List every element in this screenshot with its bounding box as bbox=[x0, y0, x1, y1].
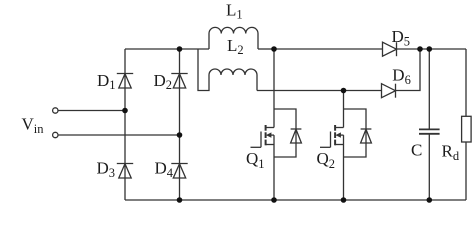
junction D4 bottom rail bbox=[177, 197, 183, 203]
diode D5 bbox=[383, 42, 397, 56]
diode D2 bbox=[171, 74, 187, 89]
junction upper input / D1 column bbox=[122, 108, 128, 114]
transistor Q1 bbox=[251, 125, 275, 147]
wire left bridge leg (D1/D3 column) bbox=[124, 49, 126, 200]
diode D3 bbox=[117, 164, 133, 179]
junction Q1 source rail bbox=[271, 197, 277, 203]
diode D6 bbox=[382, 84, 396, 98]
wire lower input bbox=[58, 134, 180, 136]
wire top rail input bbox=[125, 48, 209, 50]
svg-text:L1: L1 bbox=[226, 0, 243, 21]
transistor Q2 bbox=[320, 125, 344, 147]
wire Q1 source bbox=[273, 135, 275, 200]
svg-text:D2: D2 bbox=[154, 71, 173, 92]
svg-text:D1: D1 bbox=[97, 71, 116, 92]
junction Q2 source rail bbox=[341, 197, 347, 203]
wire bottom rail bbox=[125, 199, 466, 201]
wire upper input bbox=[58, 110, 125, 112]
wire Q2 source bbox=[343, 135, 345, 200]
node Vin- terminal bbox=[53, 132, 58, 137]
wire L2 output to D6 anode bbox=[257, 90, 382, 92]
svg-text:Q1: Q1 bbox=[246, 149, 265, 171]
svg-text:L2: L2 bbox=[227, 36, 244, 57]
junction C bottom rail bbox=[427, 197, 433, 203]
capacitor C bbox=[419, 49, 440, 200]
svg-text:D5: D5 bbox=[392, 27, 411, 49]
svg-text:C: C bbox=[411, 141, 422, 160]
svg-text:D3: D3 bbox=[97, 159, 116, 180]
junction C top node bbox=[427, 46, 433, 52]
junction D6 output node bbox=[417, 46, 423, 52]
inductor L1 bbox=[209, 27, 258, 49]
junction D2 top rail bbox=[177, 46, 183, 52]
wire D6 cathode up to output node bbox=[396, 49, 421, 91]
svg-text:D6: D6 bbox=[392, 66, 411, 88]
wire D5 anode rail bbox=[274, 48, 383, 50]
svg-text:D4: D4 bbox=[155, 159, 174, 180]
wire output top rail bbox=[397, 48, 467, 50]
node Vin+ terminal bbox=[53, 108, 58, 113]
diode D4 bbox=[171, 164, 187, 179]
resistor Rd bbox=[462, 116, 472, 200]
wire right bridge leg (D2/D4 column) bbox=[179, 49, 181, 200]
node L1/Q1/D5 bbox=[271, 46, 277, 52]
svg-text:Rd: Rd bbox=[442, 142, 460, 164]
svg-text:Vin: Vin bbox=[22, 114, 45, 136]
node L2/Q2/D6 bbox=[341, 88, 347, 94]
diode D1 bbox=[117, 74, 133, 89]
diode Q1 body diode bbox=[274, 109, 301, 157]
wire Q1 drain bbox=[273, 49, 275, 128]
diode Q2 body diode bbox=[344, 109, 372, 157]
wire Q2 drain bbox=[343, 91, 345, 128]
svg-text:Q2: Q2 bbox=[317, 149, 336, 171]
wire L1 output bbox=[258, 48, 274, 50]
wire output right drop to Rd bbox=[465, 49, 467, 116]
inductor L2 bbox=[198, 49, 257, 91]
junction lower input / D2 column bbox=[177, 132, 183, 138]
